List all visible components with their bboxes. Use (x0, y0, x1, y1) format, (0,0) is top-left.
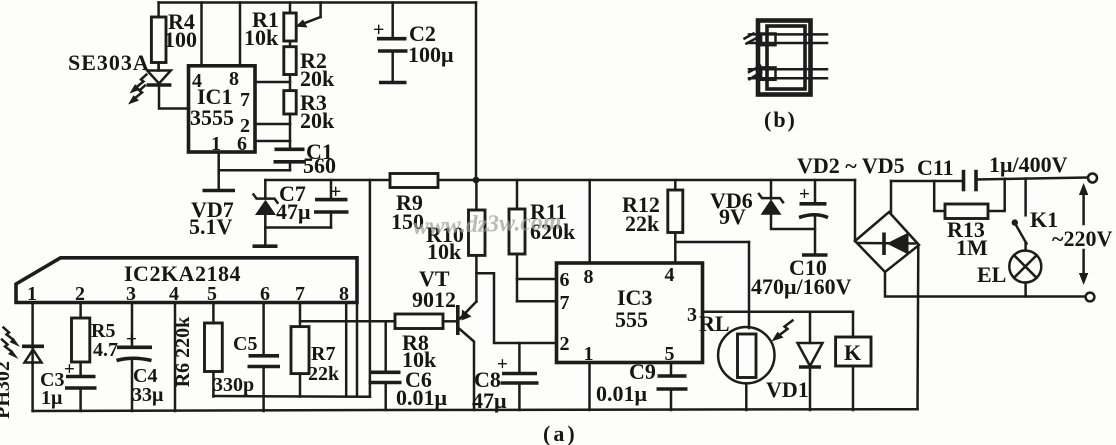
capacitor C11 (964, 170, 1088, 192)
svg-text:5: 5 (207, 283, 217, 305)
wire: feedback line under IC2 (213, 395, 370, 398)
svg-text:4: 4 (665, 264, 675, 286)
svg-text:6: 6 (237, 133, 247, 155)
switch K1 (1012, 179, 1027, 244)
wire: riser from feedback line up to mid rail (369, 180, 372, 397)
label K1 (1030, 207, 1058, 232)
svg-text:8: 8 (584, 266, 594, 288)
label VT 9012 (412, 266, 456, 312)
bridge rectifier VD2-VD5 (855, 212, 919, 272)
wire: pin 4 of IC1 to top rail (200, 3, 203, 66)
wire: R12 bottom to RL column (675, 241, 749, 244)
inset (b): top bolt (745, 34, 828, 46)
wire: pin 8 of IC1 to top rail (239, 3, 242, 66)
svg-text:7: 7 (560, 292, 570, 314)
label R8 10k (402, 330, 437, 372)
zener diode VD7 (254, 180, 278, 228)
label R4 100 (164, 9, 197, 52)
wire: C1 bottom to IC1 pin 1 (219, 152, 290, 170)
svg-text:+: + (330, 181, 341, 203)
emit arrows of SE303A (128, 75, 147, 105)
svg-text:(a): (a) (543, 421, 578, 445)
svg-text:6: 6 (260, 283, 270, 305)
node A: junction dot at R9 rail (473, 177, 480, 184)
transistor Q1: VT 9012 (458, 255, 477, 410)
svg-text:8: 8 (339, 283, 349, 305)
svg-text:EL: EL (977, 262, 1006, 287)
measure arrow ~220V (1079, 183, 1088, 285)
svg-text:PH302: PH302 (0, 361, 14, 419)
svg-text:560: 560 (303, 153, 336, 178)
svg-text:R6 220k: R6 220k (172, 316, 194, 387)
pin numbers of IC2 (27, 283, 349, 305)
svg-text:7: 7 (240, 89, 250, 111)
label C5 330p (213, 333, 257, 396)
wire: AC bottom line from bridge to terminal (885, 272, 1085, 297)
resistor R9 (390, 174, 438, 188)
LED SE303A (147, 63, 189, 109)
svg-text:~220V: ~220V (1052, 226, 1112, 251)
svg-text:3555: 3555 (190, 105, 234, 130)
wire: base line from R7 top to R8 (300, 320, 395, 323)
svg-text:6: 6 (560, 269, 570, 291)
inset (b): bottom bolt (749, 66, 827, 80)
capacitor C9 (657, 363, 688, 411)
wire: RL column riser (748, 242, 751, 328)
svg-text:RL: RL (699, 311, 730, 336)
capacitor C6 (369, 321, 402, 410)
zener diode VD6 (759, 180, 815, 229)
wire: IC3 pin 6 line (517, 278, 557, 281)
label R9 150 (391, 190, 424, 234)
label R12 22k (622, 192, 660, 236)
capacitor C7 (314, 180, 349, 228)
wire: mid rail corner into bridge left vertex (854, 180, 857, 241)
svg-text:10k: 10k (244, 25, 279, 50)
wire: AC top line to C11 (891, 180, 962, 183)
label R11 620k (530, 199, 576, 244)
svg-text:+: + (126, 329, 137, 350)
svg-text:5: 5 (665, 343, 675, 365)
wire: IC3 pin 8 to mid rail (588, 180, 591, 263)
svg-text:+: + (373, 19, 384, 41)
svg-text:C5: C5 (233, 333, 257, 355)
svg-text:4.7: 4.7 (93, 339, 118, 361)
label VD2 ~ VD5 (797, 153, 905, 178)
op-amp U2: IC2 KA2184 box (16, 258, 357, 303)
resistor R12 (668, 180, 683, 263)
wire: bridge right vertex down to bottom rail (916, 246, 919, 409)
wire: IC3 pin 7 line (517, 300, 557, 303)
label VD1 (766, 377, 809, 402)
wire: top supply rail (159, 1, 476, 4)
label VD6 9V (710, 188, 753, 229)
wire: bridge top vertex up to AC top line (890, 181, 893, 213)
wire: IC1 pin 7 to R2/R3 junction (255, 81, 290, 84)
label C3 1u with plus (40, 359, 75, 409)
inset (b): inner frame (767, 26, 805, 89)
light arrow of RL (772, 321, 793, 342)
label R7 22k (308, 343, 340, 385)
label 1u/400V (989, 152, 1068, 177)
label C11 (917, 155, 954, 180)
svg-text:10k: 10k (427, 239, 462, 264)
wire: IC2 pin 8 down (345, 303, 348, 397)
svg-text:IC2KA2184: IC2KA2184 (124, 261, 241, 286)
wire: IC3 pin 1 to bottom rail (588, 363, 591, 411)
ground of VD7/C7 (253, 228, 278, 247)
wire: vertical drop from top rail to R9 rail junction (475, 3, 478, 181)
label ~220V (1052, 226, 1112, 251)
resistor R6 (205, 303, 223, 397)
label VD7 5.1V (189, 197, 234, 239)
svg-text:VD2 ~ VD5: VD2 ~ VD5 (797, 153, 905, 178)
relay K (836, 312, 871, 410)
label (b) (764, 107, 797, 132)
svg-text:22k: 22k (308, 363, 340, 385)
potentiometer R1 (284, 3, 321, 42)
op-amp U1: IC1 3555 box (189, 66, 256, 152)
terminal: AC top (1088, 174, 1097, 183)
svg-text:SE303A: SE303A (68, 50, 150, 75)
resistor R11 (509, 180, 525, 301)
capacitor C3 (65, 377, 97, 412)
resistor R2 (284, 41, 296, 91)
svg-text:www.dz3w.com: www.dz3w.com (412, 209, 562, 240)
label C8 47u with plus (472, 354, 508, 413)
photoresistor RL (718, 327, 774, 410)
svg-text:100μ: 100μ (408, 42, 454, 67)
label R10 10k (426, 222, 464, 264)
resistor R7 (291, 303, 309, 397)
label R2 20k (300, 48, 335, 91)
wire: IC2 pin 4 to bottom rail (174, 303, 177, 412)
capacitor C10 (799, 180, 828, 255)
label C4 33u with plus (126, 329, 164, 406)
svg-text:555: 555 (615, 307, 648, 332)
wire: main mid rail left segment (VD7 top to R9) (265, 179, 390, 182)
label IC1 3555 and pins (190, 68, 250, 155)
svg-text:20k: 20k (300, 66, 335, 91)
svg-text:R7: R7 (311, 343, 335, 365)
resistor R3 (284, 91, 296, 148)
label C1 560 (303, 139, 336, 178)
wire: emitter jog to IC3 pin 2 line (476, 273, 556, 343)
svg-text:5.1V: 5.1V (189, 214, 233, 239)
resistor R4 (151, 3, 166, 70)
label C10 470u/160V with plus (751, 184, 852, 299)
wire: mid rail from R9 to bridge (438, 179, 855, 182)
wire: IC1 pin 2 line to R3 bottom column (255, 123, 290, 126)
svg-text:330p: 330p (213, 374, 254, 396)
svg-text:K: K (844, 340, 861, 365)
terminal: AC bottom (1086, 293, 1095, 302)
svg-text:1μ/400V: 1μ/400V (989, 152, 1068, 177)
capacitor C5 (248, 303, 281, 412)
capacitor C4 (117, 303, 153, 412)
label C7 47u with plus (276, 181, 341, 224)
label IC3 555 and pins (560, 264, 698, 365)
capacitor C2 (377, 3, 408, 83)
svg-text:1M: 1M (956, 235, 988, 260)
receive arrows of PH302 (2, 328, 20, 360)
label C6 0.01u (396, 367, 448, 410)
capacitor C1 (274, 149, 306, 170)
resistor R8 (395, 314, 456, 329)
svg-text:20k: 20k (300, 108, 335, 133)
svg-text:9V: 9V (719, 204, 746, 229)
lamp EL (1009, 243, 1041, 297)
svg-text:0.01μ: 0.01μ (396, 385, 448, 410)
svg-text:C11: C11 (917, 155, 954, 180)
label C2 100u with plus (373, 19, 454, 67)
label (a) (543, 421, 578, 445)
capacitor C8 (501, 343, 539, 410)
inset (b): outer frame (758, 21, 811, 95)
svg-text:VD1: VD1 (766, 377, 809, 402)
svg-text:9012: 9012 (412, 287, 456, 312)
svg-text:3: 3 (687, 304, 697, 326)
label PH302 (rotated) (0, 361, 14, 419)
label IC2KA2184 (124, 261, 241, 286)
ground of IC1 pin 1 (203, 170, 236, 190)
svg-text:470μ/160V: 470μ/160V (751, 274, 852, 299)
svg-text:+: + (64, 359, 75, 380)
resistor R10 (469, 180, 486, 255)
resistor R5 (72, 303, 90, 377)
label SE303A (68, 50, 150, 75)
diode VD1 (798, 312, 823, 410)
svg-text:33μ: 33μ (132, 384, 164, 406)
svg-text:1μ: 1μ (41, 387, 63, 409)
wire: IC1 pin 6 line to C1 column (255, 140, 290, 143)
svg-text:0.01μ: 0.01μ (596, 381, 648, 406)
label R6 220k (rotated) (172, 316, 194, 387)
svg-text:100: 100 (164, 27, 197, 52)
svg-text:+: + (799, 184, 810, 205)
label EL (977, 262, 1006, 287)
wire: VD7/C7 common bottom (265, 226, 331, 229)
svg-text:2: 2 (560, 333, 570, 355)
wire: bottom rail (33, 409, 918, 411)
photodiode PH302 (22, 303, 44, 412)
label R13 1M (947, 217, 988, 260)
label RL (699, 311, 730, 336)
svg-text:+: + (497, 354, 508, 375)
label R5 4.7 (91, 320, 118, 361)
timer U3: IC3 555 box (557, 263, 703, 363)
svg-text:(b): (b) (764, 107, 797, 132)
wire: IC3 pin 3 line to K column (703, 311, 854, 314)
wire: IC2 right edge drop (356, 303, 359, 397)
label C9 0.01u (596, 359, 656, 406)
resistor R13 (934, 179, 1005, 219)
label R1 10k (244, 7, 279, 50)
watermark (412, 209, 562, 240)
svg-text:22k: 22k (625, 211, 660, 236)
svg-text:47μ: 47μ (276, 199, 311, 224)
label R3 20k (300, 90, 335, 133)
